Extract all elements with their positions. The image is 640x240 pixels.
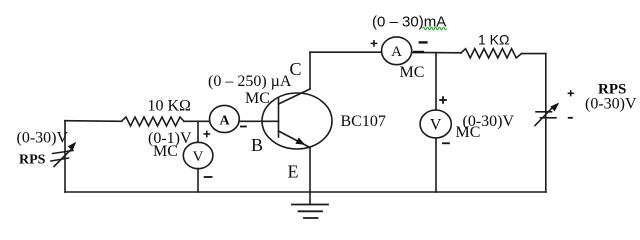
RPS left symbol plates: [53, 151, 74, 154]
svg-text:V: V: [193, 149, 204, 165]
transistor Q1 circle: [262, 93, 332, 149]
wire collector vertical: [309, 52, 311, 89]
ammeter A2 circle: [382, 37, 412, 65]
ground bar 2: [299, 210, 323, 212]
wire top rail to ammeter A2: [310, 51, 382, 53]
svg-text:(0 – 250) µA: (0 – 250) µA: [208, 73, 292, 90]
wire resistor to right corner: [522, 53, 546, 55]
transistor Q1 base bar: [278, 98, 280, 137]
wire junction to voltmeter V1: [197, 121, 199, 142]
transistor Q1 emitter arrowhead: [295, 138, 305, 145]
minus A1: [240, 126, 247, 128]
svg-text:B: B: [251, 135, 263, 155]
svg-text:MC: MC: [245, 90, 270, 107]
minus A2: [419, 41, 428, 43]
svg-text:MC: MC: [400, 64, 425, 81]
RPS right symbol plates: [536, 111, 552, 113]
wire junction to voltmeter V2: [435, 53, 437, 111]
svg-text:(0-30)V: (0-30)V: [585, 96, 637, 113]
svg-text:C: C: [290, 59, 302, 79]
svg-text:BC107: BC107: [341, 113, 386, 130]
svg-text:(0-30)V: (0-30)V: [17, 130, 69, 147]
wire right vertical (RPS branch): [545, 54, 547, 192]
minus RPS right: [568, 117, 573, 119]
wire voltmeter V1 to bottom rail: [197, 169, 199, 192]
thick wire mark after A2: [413, 51, 424, 53]
plus RPS right: [568, 92, 574, 94]
ammeter A1 circle: [210, 105, 240, 132]
wire bottom rail: [65, 191, 546, 193]
ground bar 1: [292, 204, 328, 206]
plus/minus terminal marks: [203, 40, 573, 177]
wire voltmeter V2 to bottom rail: [435, 138, 437, 192]
wire resistor to ammeter A1: [184, 120, 210, 122]
wire emitter vertical: [309, 148, 311, 193]
svg-text:A: A: [391, 44, 402, 60]
voltmeter V1 circle: [183, 142, 213, 168]
RPS left arrowhead: [68, 142, 76, 151]
svg-text:MC: MC: [456, 124, 481, 141]
svg-text:A: A: [219, 113, 230, 128]
svg-text:1 KΩ: 1 KΩ: [478, 32, 509, 48]
svg-text:RPS: RPS: [19, 153, 46, 168]
minus V2: [442, 142, 450, 144]
wire top-left rail: [65, 120, 122, 123]
resistor 10 KΩ: [122, 117, 185, 126]
voltmeter V2 circle: [420, 110, 451, 138]
svg-text:10 KΩ: 10 KΩ: [148, 98, 192, 115]
ground bar 3: [304, 217, 318, 219]
transistor Q1 emitter stroke: [279, 131, 311, 148]
RPS right symbol arrow shaft: [535, 108, 553, 126]
minus V1: [204, 176, 213, 178]
svg-text:(0 – 30)mA: (0 – 30)mA: [372, 14, 446, 31]
resistor 1 KΩ: [461, 49, 522, 58]
plus V2: [439, 99, 447, 101]
transistor Q1 collector stroke: [279, 89, 311, 104]
wire ammeter A2 to resistor: [412, 51, 461, 53]
wire ammeter A1 to base: [239, 120, 278, 122]
ground stub: [309, 192, 311, 205]
green spellcheck squiggle under mA: [423, 27, 447, 29]
RPS left symbol arrow shaft: [54, 150, 71, 167]
plus A2: [371, 42, 378, 44]
RPS right arrowhead: [550, 103, 559, 112]
wire left vertical (RPS branch): [64, 121, 66, 192]
svg-text:MC: MC: [153, 143, 178, 160]
svg-text:V: V: [430, 117, 442, 134]
plus V1: [203, 133, 210, 135]
svg-text:E: E: [288, 162, 299, 182]
